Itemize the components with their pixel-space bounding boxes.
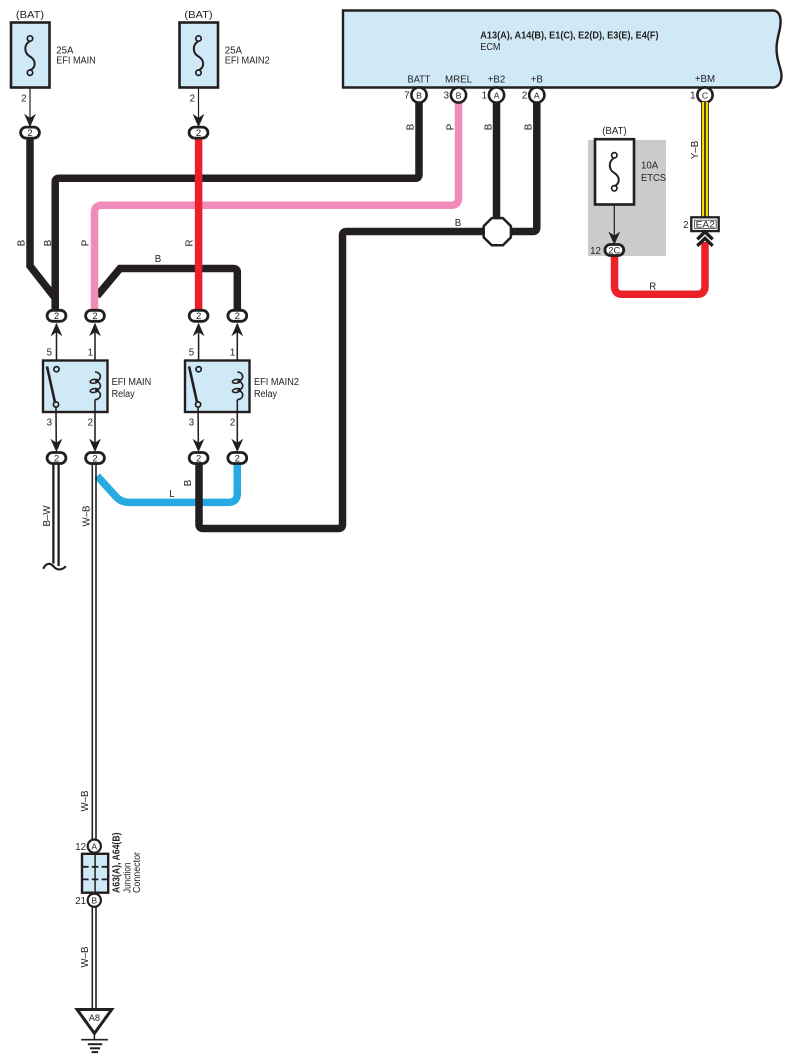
- svg-text:B: B: [406, 124, 417, 130]
- connector oval 2 (relay2 pin5 top): [189, 310, 208, 322]
- relay2 pin3 lead with down arrow: [189, 412, 205, 452]
- fuse 25A EFI MAIN2: [180, 10, 270, 127]
- connector oval 2C (ETCS): [590, 244, 624, 256]
- svg-text:2: 2: [235, 453, 240, 464]
- svg-text:R: R: [185, 240, 196, 247]
- svg-text:3: 3: [444, 91, 449, 102]
- svg-text:10A: 10A: [641, 161, 659, 172]
- svg-text:P: P: [446, 124, 457, 130]
- wire Y-B yellow from ECM +BM to EA2: [690, 102, 708, 217]
- wire jumper B between relay coils (under pink): [97, 269, 237, 311]
- svg-text:2C: 2C: [608, 244, 620, 255]
- junction connector A63(A), A64(B): [75, 833, 143, 908]
- svg-text:B: B: [17, 240, 28, 246]
- svg-text:+B: +B: [531, 75, 543, 86]
- svg-text:2: 2: [21, 94, 26, 105]
- svg-text:2: 2: [683, 220, 688, 231]
- ECM pin MREL 3(B): [444, 75, 473, 103]
- wire label R: [185, 240, 196, 247]
- svg-text:1: 1: [482, 91, 487, 102]
- svg-text:A: A: [534, 90, 540, 100]
- svg-text:A: A: [494, 90, 500, 100]
- wire label L (blue): [169, 489, 175, 500]
- svg-text:1: 1: [690, 91, 695, 102]
- ECM pin +B 2(A): [522, 75, 544, 103]
- svg-text:(BAT): (BAT): [184, 10, 212, 21]
- svg-text:ECM: ECM: [480, 42, 500, 53]
- svg-text:2: 2: [27, 128, 32, 139]
- wire label B (jumper): [155, 254, 161, 265]
- wire R red ETCS to EA2: [615, 242, 706, 294]
- svg-text:A8: A8: [89, 1013, 100, 1023]
- wire W-B double line from relay1 pin2 down to junction connector: [80, 464, 96, 840]
- wire BATT black from ECM pin 7(B) to relay ovals: [55, 100, 419, 310]
- svg-text:EFI MAIN2: EFI MAIN2: [254, 377, 299, 388]
- wire R red from fuse EFI MAIN2: [195, 137, 203, 310]
- connector oval 2 (relay1 pin5 top): [47, 310, 66, 322]
- svg-text:2: 2: [522, 91, 527, 102]
- connector oval 2 (fuse2): [189, 127, 208, 139]
- svg-text:3: 3: [189, 418, 194, 429]
- svg-text:12: 12: [590, 246, 601, 257]
- wire label P (mrel top): [446, 124, 457, 130]
- connector oval 2 (relay2 pin2 bottom): [228, 453, 247, 465]
- svg-text:A63(A), A64(B): A63(A), A64(B): [112, 833, 123, 894]
- svg-text:W–B: W–B: [80, 947, 91, 968]
- connector oval 2 (relay2 pin1 top): [228, 310, 247, 322]
- wire label B (batt): [43, 240, 54, 246]
- svg-text:(BAT): (BAT): [602, 126, 627, 137]
- wire B-W double line from relay1 pin3: [42, 464, 66, 569]
- wire B from octagon to relay2 pin 3: [199, 232, 490, 529]
- svg-text:3: 3: [47, 418, 52, 429]
- wire L blue between relay pin 2s: [97, 461, 237, 502]
- ETCS fuse block (gray area): [588, 126, 667, 256]
- svg-text:B: B: [455, 218, 461, 229]
- connector oval 2 (relay1 pin2 bottom): [86, 453, 105, 465]
- svg-text:ETCS: ETCS: [641, 173, 667, 184]
- svg-text:1: 1: [88, 348, 93, 359]
- wire label B (+B): [524, 124, 535, 130]
- svg-text:Connector: Connector: [132, 851, 143, 893]
- wire from fuse EFI MAIN (B): [30, 137, 55, 310]
- svg-text:A13(A), A14(B), E1(C), E2(D),: A13(A), A14(B), E1(C), E2(D), E3(E), E4(…: [480, 31, 658, 42]
- svg-text:2: 2: [190, 94, 195, 105]
- svg-text:BATT: BATT: [408, 75, 431, 86]
- svg-text:L: L: [169, 489, 175, 500]
- svg-text:(BAT): (BAT): [16, 10, 44, 21]
- svg-text:2: 2: [92, 311, 97, 322]
- svg-text:2: 2: [88, 418, 93, 429]
- wire MREL pink P: [95, 100, 459, 310]
- svg-text:12: 12: [75, 842, 86, 853]
- relay1 pin5 lead with up arrow: [47, 323, 63, 369]
- svg-text:P: P: [81, 240, 92, 246]
- ECM pin +BM 1(C): [690, 74, 715, 103]
- ECM pin BATT 7(B): [404, 75, 430, 103]
- ECM block A13(A), A14(B), E1(C), E2(D), E3(E), E4(F): [343, 11, 782, 88]
- wire W-B from junction connector to ground: [80, 907, 96, 1010]
- relay2 pin1 lead with up arrow: [230, 323, 243, 372]
- svg-text:B: B: [484, 124, 495, 130]
- svg-text:2: 2: [54, 453, 59, 464]
- svg-text:7: 7: [404, 91, 409, 102]
- wire label B (relay2 pin3 down): [183, 480, 194, 486]
- svg-text:EFI MAIN: EFI MAIN: [56, 56, 96, 67]
- svg-text:MREL: MREL: [445, 75, 473, 86]
- svg-text:W–B: W–B: [82, 506, 93, 527]
- svg-text:+BM: +BM: [695, 74, 715, 85]
- svg-text:2: 2: [196, 453, 201, 464]
- connector oval 2 (relay1 pin1 top): [86, 310, 105, 322]
- svg-text:W–B: W–B: [80, 791, 91, 812]
- relay1 pin2 lead with down arrow: [88, 412, 101, 452]
- octagon junction node: [484, 218, 511, 245]
- svg-text:1: 1: [230, 348, 235, 359]
- relay1 pin1 lead with up arrow: [88, 323, 101, 372]
- wire label B (+B2): [484, 124, 495, 130]
- relay2 pin2 lead with down arrow: [230, 412, 243, 452]
- ECM pin +B2 1(A): [482, 75, 506, 103]
- relay2 pin5 lead with up arrow: [189, 323, 205, 369]
- connector oval 2 (relay1 pin3 bottom): [47, 453, 66, 465]
- svg-text:5: 5: [47, 348, 52, 359]
- svg-text:EA2: EA2: [696, 220, 715, 230]
- svg-text:Y–B: Y–B: [690, 141, 701, 159]
- svg-text:2: 2: [92, 453, 97, 464]
- svg-text:R: R: [649, 282, 656, 293]
- svg-text:B: B: [43, 240, 54, 246]
- svg-text:21: 21: [75, 896, 86, 907]
- svg-text:B–W: B–W: [42, 505, 53, 527]
- wire label P: [81, 240, 92, 246]
- svg-text:B: B: [524, 124, 535, 130]
- svg-text:B: B: [183, 480, 194, 486]
- svg-text:EFI MAIN: EFI MAIN: [112, 377, 152, 388]
- svg-text:2: 2: [235, 311, 240, 322]
- wire +B2 black into octagon: [493, 100, 501, 224]
- fuse 25A EFI MAIN: [11, 10, 96, 127]
- svg-text:2: 2: [230, 418, 235, 429]
- relay EFI MAIN2 box: [185, 361, 299, 413]
- svg-text:2: 2: [196, 311, 201, 322]
- connector EA2: [683, 217, 719, 246]
- connector oval 2 (fuse1): [21, 127, 40, 139]
- svg-text:C: C: [702, 90, 708, 100]
- svg-text:EFI MAIN2: EFI MAIN2: [225, 56, 270, 67]
- wire +B black into octagon: [508, 100, 537, 232]
- svg-text:A: A: [91, 841, 97, 851]
- connector oval 2 (relay2 pin3 bottom): [189, 453, 208, 465]
- ground A8: [77, 1010, 112, 1053]
- relay EFI MAIN box: [43, 361, 151, 413]
- svg-text:2: 2: [54, 311, 59, 322]
- wire label B (octagon left): [455, 218, 461, 229]
- wire label B (batt top): [406, 124, 417, 130]
- svg-text:B: B: [416, 90, 422, 100]
- svg-text:B: B: [155, 254, 161, 265]
- svg-text:Relay: Relay: [112, 389, 135, 400]
- svg-text:2: 2: [196, 128, 201, 139]
- svg-text:5: 5: [189, 348, 194, 359]
- svg-text:B: B: [91, 895, 97, 905]
- svg-text:Relay: Relay: [254, 389, 277, 400]
- svg-text:B: B: [456, 90, 462, 100]
- svg-text:+B2: +B2: [488, 75, 506, 86]
- wire label B (fuse1): [17, 240, 28, 246]
- relay1 pin3 lead with down arrow: [47, 412, 63, 452]
